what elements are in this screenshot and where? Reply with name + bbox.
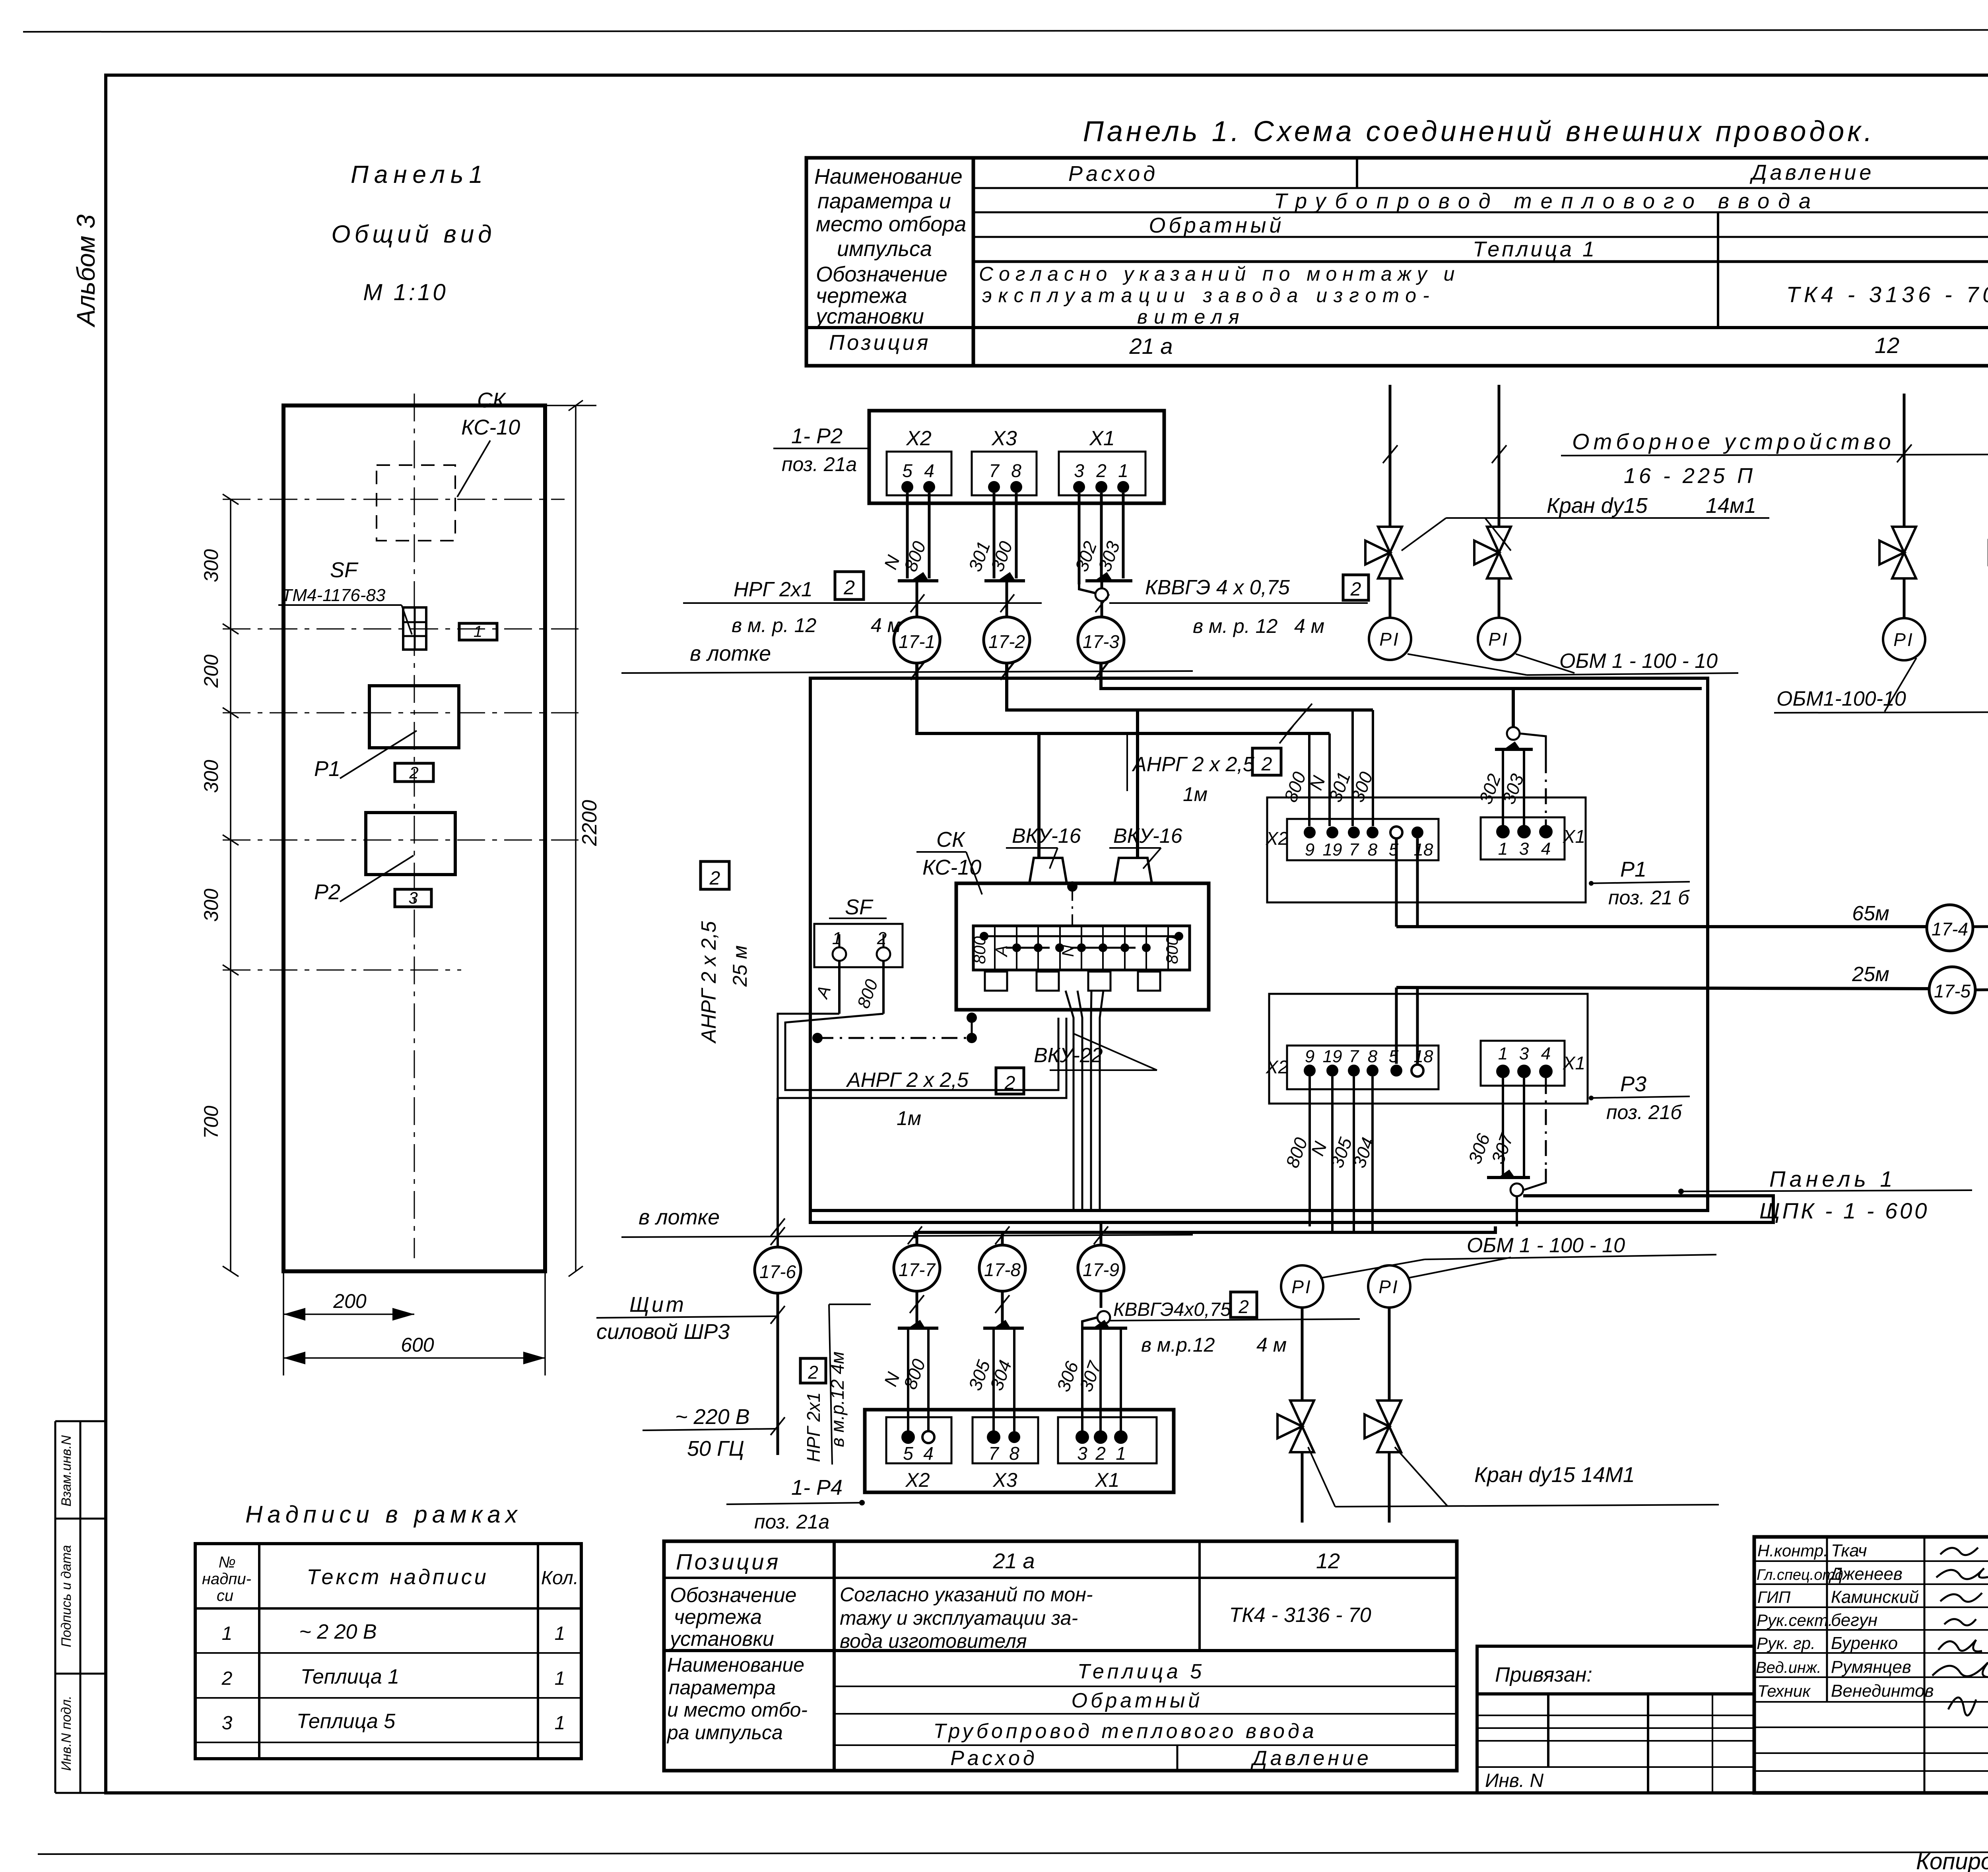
svg-text:18: 18 [1414, 1047, 1433, 1066]
svg-text:800: 800 [1163, 936, 1181, 964]
svg-text:200: 200 [200, 654, 222, 688]
svg-text:поз. 21а: поз. 21а [782, 453, 857, 475]
svg-text:7: 7 [989, 460, 1000, 481]
row line 2 [973, 211, 1988, 213]
svg-text:Х1: Х1 [1095, 1469, 1119, 1491]
wire dash to X1-4 [1545, 757, 1547, 826]
svg-text:КВВГЭ 4 х 0,75: КВВГЭ 4 х 0,75 [1145, 576, 1290, 599]
privyazan box [1477, 1646, 1754, 1793]
svg-text:300: 300 [200, 888, 222, 922]
CK leader [457, 440, 490, 497]
svg-text:2: 2 [1350, 579, 1361, 600]
terminal comb [973, 926, 1190, 970]
bottom dim 200 [283, 1271, 284, 1375]
svg-text:1- Р4: 1- Р4 [791, 1476, 843, 1500]
svg-text:17-1: 17-1 [899, 631, 935, 652]
svg-text:Х2: Х2 [1266, 1057, 1288, 1077]
svg-text:НРГ 2х1: НРГ 2х1 [803, 1392, 824, 1462]
branch to VKU-16 no.1 [1037, 733, 1041, 858]
pressure gauge PI bottom 1 [1281, 1265, 1323, 1307]
svg-text:импульса: импульса [837, 237, 932, 261]
svg-text:Техник: Техник [1757, 1682, 1811, 1700]
instrument circle 17-9 [1078, 1245, 1124, 1291]
kran leaders [1402, 518, 1446, 551]
svg-text:Вед.инж.: Вед.инж. [1756, 1659, 1821, 1676]
svg-text:установки: установки [669, 1628, 774, 1651]
leaders to PI [1320, 1259, 1425, 1278]
svg-text:вода изготовителя: вода изготовителя [840, 1630, 1027, 1652]
leaders to PI [1408, 654, 1527, 675]
svg-text:1: 1 [1116, 1443, 1126, 1464]
dim 2200 right [575, 405, 577, 1271]
svg-text:19: 19 [1323, 840, 1342, 859]
svg-text:ВКУ-16: ВКУ-16 [1012, 824, 1081, 848]
svg-text:бегун: бегун [1831, 1610, 1877, 1630]
junction node [1510, 1183, 1523, 1196]
cable name line NRG [683, 602, 1042, 604]
svg-text:Альбом 3: Альбом 3 [72, 214, 100, 328]
relay P1 box [369, 686, 459, 748]
svg-text:1: 1 [222, 1623, 233, 1644]
svg-text:чертежа: чертежа [816, 284, 907, 308]
svg-text:параметра и: параметра и [817, 189, 951, 213]
svg-text:17-6: 17-6 [759, 1261, 796, 1282]
svg-text:Теплица 5: Теплица 5 [1077, 1660, 1205, 1683]
svg-text:2: 2 [1095, 1443, 1106, 1464]
svg-text:7: 7 [988, 1443, 999, 1464]
wire [1389, 578, 1392, 618]
wire from 17-6 down [777, 1293, 779, 1455]
svg-text:PI: PI [1291, 1276, 1312, 1297]
svg-text:1: 1 [832, 929, 842, 948]
cable gather bar 17-1 [898, 579, 938, 582]
svg-text:Х1: Х1 [1563, 1053, 1585, 1073]
svg-text:НРГ 2х1: НРГ 2х1 [734, 578, 813, 601]
CK KC-10 dashed box [377, 465, 455, 541]
gather bar at X1 [1495, 748, 1533, 751]
tick marks on cable lines [911, 594, 1109, 612]
svg-text:1- Р2: 1- Р2 [791, 424, 843, 448]
axis line 2 [223, 629, 579, 630]
riser 17-7 [913, 1232, 916, 1238]
axis line 5 [223, 970, 461, 971]
svg-text:700: 700 [200, 1106, 222, 1139]
wire 302 [1502, 749, 1504, 826]
instrument circle 17-2 [984, 617, 1030, 663]
gather bar 17-8 [983, 1327, 1024, 1330]
relay P2 box [366, 813, 455, 875]
pipe 2 [1498, 385, 1501, 526]
svg-text:19: 19 [1323, 1047, 1342, 1066]
panel outline [283, 405, 545, 1271]
wire [1903, 578, 1906, 618]
connector X3 of 1-P4 [973, 1417, 1038, 1463]
svg-text:Наименование: Наименование [667, 1654, 804, 1676]
branch to VKU-16 no.2 [1136, 710, 1139, 858]
svg-text:300: 300 [200, 760, 222, 793]
svg-text:3: 3 [408, 888, 417, 907]
svg-text:Отборное устройство: Отборное устройство [1572, 429, 1895, 454]
svg-text:ЩПК - 1 - 600: ЩПК - 1 - 600 [1759, 1198, 1929, 1223]
svg-text:АНРГ 2 х 2,5: АНРГ 2 х 2,5 [1132, 753, 1255, 776]
svg-text:17-5: 17-5 [1934, 981, 1971, 1001]
bottom dim 600 [283, 1357, 545, 1359]
svg-text:Расход: Расход [950, 1747, 1038, 1770]
sampling device line [1561, 453, 1988, 456]
divider TK cells [1717, 262, 1719, 328]
svg-text:Ткач: Ткач [1831, 1541, 1867, 1560]
SF leader [402, 605, 412, 634]
gather bar under P3.X1 [1487, 1176, 1530, 1179]
svg-text:в лотке: в лотке [639, 1205, 720, 1229]
svg-text:9: 9 [1305, 1047, 1314, 1066]
svg-text:Панель 1: Панель 1 [1769, 1166, 1897, 1191]
svg-text:3: 3 [1519, 839, 1529, 859]
valve bottom 1 [1277, 1401, 1314, 1452]
row line 5 [806, 326, 1988, 329]
svg-text:ТК4 - 3136 - 70: ТК4 - 3136 - 70 [1786, 282, 1988, 307]
table outline [806, 158, 1988, 366]
connector X1 of 1-P4 [1058, 1417, 1157, 1463]
svg-text:Р2: Р2 [314, 880, 340, 904]
svg-text:Дженеев: Дженеев [1828, 1564, 1903, 1584]
svg-text:2: 2 [221, 1668, 233, 1689]
wires X2 pair down [907, 493, 1123, 584]
wires 800 N 301 300 down to P1.X2 [1308, 733, 1310, 826]
svg-text:Давление: Давление [1750, 161, 1875, 184]
bundle line 1 (panel bottom area) [810, 1196, 1773, 1222]
svg-text:9: 9 [1305, 840, 1314, 859]
svg-text:М 1:10: М 1:10 [363, 279, 448, 305]
svg-text:Х1: Х1 [1563, 826, 1585, 847]
svg-text:Каминский: Каминский [1831, 1587, 1919, 1607]
panel centre axis [414, 394, 415, 1258]
svg-text:Общий вид: Общий вид [331, 221, 495, 248]
valve dy15 [1879, 527, 1916, 578]
svg-text:5: 5 [902, 460, 912, 481]
outer bottom border line [38, 1852, 1988, 1854]
KVVGE junction node [1095, 588, 1108, 601]
svg-text:место отбора: место отбора [816, 212, 966, 236]
svg-text:3: 3 [1074, 460, 1084, 481]
svg-text:Х2: Х2 [905, 1469, 930, 1491]
svg-text:Румянцев: Румянцев [1831, 1657, 1911, 1677]
svg-text:Текст надписи: Текст надписи [307, 1565, 488, 1589]
svg-text:параметра: параметра [669, 1676, 776, 1699]
connector X2 of 1-P4 [886, 1417, 951, 1463]
svg-text:2: 2 [409, 763, 418, 782]
instrument circle 17-6 [755, 1247, 801, 1293]
wires 17-7..9 down to bars [916, 1291, 918, 1325]
svg-text:2: 2 [877, 929, 887, 948]
svg-text:N: N [1058, 945, 1077, 957]
svg-text:4: 4 [923, 1443, 934, 1464]
svg-text:25 м: 25 м [729, 945, 751, 987]
svg-text:Инв. N: Инв. N [1485, 1770, 1543, 1791]
svg-text:СК: СК [477, 388, 507, 412]
SF wires down [838, 961, 841, 1014]
svg-text:8: 8 [1368, 1047, 1378, 1066]
svg-text:и место отбо-: и место отбо- [667, 1699, 808, 1721]
svg-text:Инв.N подл.: Инв.N подл. [59, 1695, 74, 1771]
svg-text:ВКУ-22: ВКУ-22 [1034, 1044, 1103, 1067]
svg-text:~ 220 В: ~ 220 В [675, 1405, 750, 1429]
svg-text:200: 200 [333, 1290, 367, 1312]
pressure gauge PI [1369, 618, 1411, 660]
svg-text:Рук. гр.: Рук. гр. [1757, 1634, 1815, 1653]
svg-text:Привязан:: Привязан: [1495, 1663, 1592, 1686]
X1 strip of P1 [1481, 817, 1565, 859]
svg-text:4: 4 [1541, 839, 1551, 859]
svg-text:4: 4 [924, 460, 934, 481]
pressure gauge PI bottom 2 [1368, 1265, 1410, 1307]
svg-text:3: 3 [1519, 1044, 1529, 1063]
dash-dot link inside SK [1072, 887, 1073, 926]
svg-text:ТМ4-1176-83: ТМ4-1176-83 [282, 586, 386, 605]
cable gather bar 17-3 [1085, 579, 1132, 582]
svg-text:4 м: 4 м [871, 614, 901, 636]
svg-text:25м: 25м [1852, 963, 1889, 986]
svg-text:17-3: 17-3 [1083, 631, 1119, 652]
svg-text:надпи-: надпи- [202, 1570, 251, 1588]
VKU-22 bundle [1066, 991, 1103, 1209]
outer top border line [23, 29, 1988, 32]
svg-text:Взам.инв.N: Взам.инв.N [59, 1435, 74, 1507]
valve bottom 2 [1365, 1401, 1401, 1452]
svg-text:16 - 225 П: 16 - 225 П [1624, 464, 1756, 488]
instrument circle 17-3 [1078, 617, 1124, 663]
svg-text:СК: СК [936, 828, 966, 852]
svg-text:1: 1 [1118, 460, 1128, 481]
svg-text:4 м: 4 м [1256, 1334, 1287, 1356]
svg-text:17-8: 17-8 [984, 1259, 1021, 1280]
wire PI1-valve [1301, 1307, 1304, 1401]
svg-text:3: 3 [1077, 1443, 1087, 1464]
svg-text:Х2: Х2 [1266, 828, 1288, 849]
junction dot top of SK [967, 1013, 977, 1023]
cable from 17-2 into panel [1007, 663, 1373, 710]
svg-text:Х1: Х1 [1089, 427, 1115, 450]
svg-text:17-9: 17-9 [1083, 1259, 1119, 1280]
cable name line KVVGE [1109, 602, 1368, 604]
svg-text:Подпись и дата: Подпись и дата [59, 1545, 74, 1647]
gather bar 17-9 [1082, 1327, 1127, 1330]
axis line 3 [223, 712, 579, 714]
svg-text:Х3: Х3 [992, 1469, 1017, 1491]
svg-text:Венединтов: Венединтов [1831, 1681, 1934, 1701]
row line 4 [973, 260, 1988, 263]
signatures [1932, 1548, 1988, 1715]
svg-text:2200: 2200 [578, 800, 601, 846]
svg-text:Рук.сект.: Рук.сект. [1757, 1611, 1833, 1630]
svg-text:8: 8 [1009, 1443, 1019, 1464]
svg-text:PI: PI [1379, 629, 1400, 650]
svg-text:Теплица 1: Теплица 1 [301, 1665, 399, 1688]
svg-text:2: 2 [709, 868, 720, 889]
svg-text:Согласно указаний по монтажу и: Согласно указаний по монтажу и [979, 263, 1460, 285]
svg-text:50 ГЦ: 50 ГЦ [687, 1437, 744, 1461]
svg-text:2: 2 [843, 576, 855, 599]
instrument circle 17-4 [1927, 905, 1973, 951]
svg-text:ОБМ 1 - 100 - 10: ОБМ 1 - 100 - 10 [1467, 1234, 1625, 1257]
svg-text:14м1: 14м1 [1706, 494, 1756, 518]
svg-text:Буренко: Буренко [1831, 1633, 1898, 1653]
svg-text:8: 8 [1368, 840, 1378, 859]
ticks at pipes on line [1383, 444, 1988, 463]
svg-text:1: 1 [1498, 1044, 1508, 1063]
axis line 1 [223, 499, 565, 500]
svg-text:АНРГ 2 х 2,5: АНРГ 2 х 2,5 [697, 921, 720, 1044]
svg-text:600: 600 [401, 1334, 434, 1356]
svg-text:Обратный: Обратный [1149, 213, 1285, 237]
svg-text:5: 5 [1389, 1047, 1399, 1066]
svg-text:PI: PI [1488, 629, 1508, 650]
svg-text:ТК4 - 3136 - 70: ТК4 - 3136 - 70 [1229, 1604, 1371, 1627]
svg-text:21 а: 21 а [1129, 334, 1173, 359]
svg-text:поз. 21б: поз. 21б [1606, 1101, 1682, 1123]
cable from 17-1 into panel [917, 663, 1330, 733]
frame plate 3 [395, 889, 431, 907]
frame plate 2 [395, 763, 433, 782]
svg-text:Щит: Щит [629, 1293, 686, 1317]
pressure gauge PI [1478, 618, 1520, 660]
divider flow/pressure row1 [1356, 158, 1358, 188]
svg-text:си: си [217, 1587, 233, 1604]
wire pairs down into 1-P4 [908, 1317, 1121, 1431]
valve dy15 [1365, 527, 1402, 578]
svg-text:2: 2 [808, 1362, 818, 1383]
svg-text:2: 2 [1004, 1073, 1015, 1094]
svg-text:1: 1 [555, 1713, 565, 1734]
svg-text:7: 7 [1349, 1047, 1359, 1066]
doc ref box 2 [835, 572, 864, 599]
VKU-16 connector trapezoid 1 [1029, 858, 1067, 883]
svg-text:21 а: 21 а [992, 1549, 1035, 1573]
svg-text:1: 1 [474, 623, 482, 640]
svg-text:Обратный: Обратный [1072, 1689, 1203, 1712]
svg-text:в м. р. 12: в м. р. 12 [1193, 615, 1277, 637]
svg-text:SF: SF [330, 558, 359, 582]
SK body [956, 883, 1209, 1010]
svg-text:4: 4 [1541, 1044, 1551, 1063]
leader line [829, 1304, 832, 1465]
svg-text:Кран dy15: Кран dy15 [1547, 494, 1648, 518]
row line 3 [973, 236, 1988, 238]
VKU-16 connector trapezoid 2 [1114, 858, 1152, 883]
svg-text:эксплуатации завода изгото-: эксплуатации завода изгото- [982, 284, 1436, 307]
wires up into P3.X2 from bundle [1309, 1077, 1311, 1226]
bundle line 2 [915, 1226, 1495, 1232]
svg-text:5: 5 [903, 1443, 913, 1464]
ANRG 1m cable run [778, 1014, 1066, 1098]
svg-text:Позиция: Позиция [829, 331, 930, 355]
svg-text:PI: PI [1378, 1276, 1399, 1297]
X1 strip of P3 [1481, 1041, 1565, 1086]
svg-text:А: А [992, 945, 1011, 958]
svg-text:Обозначение: Обозначение [670, 1584, 797, 1607]
65m cable to 17-4 [1396, 925, 1927, 928]
svg-text:2: 2 [1261, 754, 1272, 775]
svg-text:12: 12 [1875, 333, 1899, 358]
svg-text:300: 300 [200, 549, 222, 582]
svg-text:вителя: вителя [1137, 306, 1246, 328]
25m feeder down the left [777, 1098, 779, 1247]
svg-text:Кол.: Кол. [541, 1567, 579, 1589]
25m cable to 17-5 [1396, 987, 1929, 989]
X2 strip of P3 [1287, 1046, 1439, 1089]
wire 303 [1523, 749, 1525, 826]
svg-text:АНРГ 2 х 2,5: АНРГ 2 х 2,5 [846, 1069, 969, 1092]
wires into circles [917, 581, 1102, 617]
svg-text:Копировал Кухтинова: Копировал Кухтинова [1916, 1849, 1988, 1872]
svg-text:Х2: Х2 [906, 427, 932, 450]
svg-text:ОБМ 1 - 100 - 10: ОБМ 1 - 100 - 10 [1559, 650, 1718, 673]
svg-text:Надписи в рамках: Надписи в рамках [245, 1501, 522, 1528]
pressure gauge PI [1883, 618, 1925, 660]
svg-text:65м: 65м [1852, 902, 1889, 925]
cable from 17-3 into panel [1101, 663, 1702, 689]
svg-text:Н.контр.: Н.контр. [1757, 1541, 1828, 1560]
instrument circle 17-7 [894, 1245, 940, 1291]
svg-text:поз. 21 б: поз. 21 б [1608, 887, 1690, 909]
svg-text:Х3: Х3 [991, 427, 1017, 450]
instrument circle 17-5 [1929, 967, 1975, 1013]
svg-text:силовой ШР3: силовой ШР3 [596, 1320, 730, 1344]
KVVGE junction node (17-9) [1097, 1311, 1110, 1324]
left stamp column boxes [54, 1421, 56, 1793]
dash-dot link to bundle [817, 1037, 972, 1039]
svg-text:800: 800 [970, 936, 989, 964]
svg-text:в м. р. 12: в м. р. 12 [732, 614, 816, 636]
svg-text:3: 3 [222, 1713, 233, 1734]
svg-text:Обозначение: Обозначение [816, 262, 947, 286]
ticks on leader line crossing [910, 1295, 1010, 1313]
svg-text:Давление: Давление [1250, 1747, 1372, 1770]
svg-text:2: 2 [1096, 460, 1107, 481]
svg-text:Позиция: Позиция [676, 1549, 780, 1574]
svg-text:ра импульса: ра импульса [666, 1721, 783, 1744]
vertical dimension chain [223, 494, 239, 1276]
svg-text:Расход: Расход [1068, 162, 1158, 186]
svg-text:Теплица 1: Теплица 1 [1473, 237, 1597, 261]
svg-text:тажу и эксплуатации за-: тажу и эксплуатации за- [840, 1607, 1078, 1629]
svg-text:чертежа: чертежа [674, 1606, 762, 1629]
svg-text:Р3: Р3 [1620, 1072, 1646, 1096]
svg-text:8: 8 [1011, 460, 1021, 481]
svg-text:17-4: 17-4 [1932, 919, 1968, 939]
svg-text:1: 1 [555, 1668, 565, 1689]
frame plate 1 [459, 623, 497, 640]
pipes below valves [1301, 1452, 1304, 1523]
instrument circle 17-1 [894, 617, 940, 663]
doc ref box 2 [1343, 575, 1369, 600]
pipe 3 [1903, 394, 1906, 526]
svg-text:Кран dy15 14М1: Кран dy15 14М1 [1474, 1463, 1635, 1487]
svg-text:1: 1 [555, 1623, 565, 1644]
doc ref box 2 (left cable) [701, 861, 729, 889]
svg-text:КВВГЭ4х0,75: КВВГЭ4х0,75 [1113, 1299, 1231, 1320]
svg-text:1: 1 [1498, 839, 1508, 859]
wire [1498, 578, 1501, 618]
svg-text:Р1: Р1 [314, 757, 340, 781]
svg-text:SF: SF [845, 895, 874, 919]
svg-text:17-7: 17-7 [899, 1259, 936, 1280]
divider par row [1717, 212, 1719, 262]
cable gather bar 17-2 [984, 579, 1025, 582]
svg-text:12: 12 [1316, 1549, 1340, 1573]
svg-text:7: 7 [1349, 840, 1359, 859]
svg-text:17-2: 17-2 [988, 631, 1025, 652]
